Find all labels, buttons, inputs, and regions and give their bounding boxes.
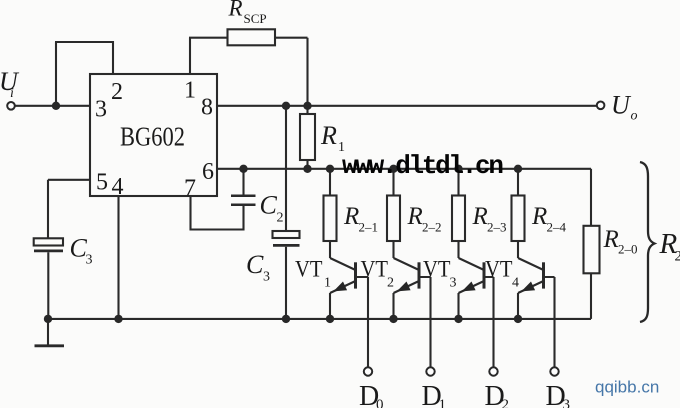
junction input node: [52, 102, 60, 110]
junction R2-4 top: [514, 165, 522, 173]
capacitor C3 left bottom plate: [34, 249, 63, 252]
transistor VT3 base wire to D2: [484, 277, 494, 367]
wire pin1 to RSCP: [189, 38, 228, 74]
wire ground rail: [48, 318, 591, 320]
IC U1 BG602 body: [90, 74, 217, 196]
junction R1 top: [303, 102, 311, 110]
svg-text:3: 3: [86, 253, 93, 268]
svg-text:2: 2: [277, 211, 284, 226]
svg-text:VT: VT: [361, 257, 389, 282]
svg-text:qqibb.cn: qqibb.cn: [595, 378, 659, 397]
wire pin2: [112, 41, 114, 74]
resistor R1 body: [300, 114, 315, 160]
capacitor C3 mid bottom plate: [273, 244, 300, 247]
transistor VT1 emitter arrow: [333, 282, 347, 292]
svg-text:5: 5: [96, 170, 108, 196]
svg-text:VT: VT: [485, 257, 513, 282]
svg-text:1: 1: [324, 276, 331, 291]
capacitor C3 mid bottom lead: [285, 247, 287, 319]
transistor VT1 base wire to D0: [356, 277, 369, 367]
terminal D2: [489, 367, 497, 375]
brace R2 group: [640, 162, 655, 322]
terminal Ui: [7, 102, 15, 110]
resistor R2-2 leads: [392, 169, 394, 258]
junction node 286 top: [282, 102, 290, 110]
svg-text:3: 3: [95, 97, 107, 123]
junction rail VT2: [389, 315, 397, 323]
svg-text:2: 2: [111, 79, 123, 105]
transistor VT4 emitter: [518, 281, 544, 319]
wire pin5 to C3 left: [48, 180, 90, 239]
svg-text:2: 2: [675, 249, 680, 265]
svg-text:R: R: [343, 203, 359, 230]
capacitor C3 mid top plate box: [273, 231, 300, 238]
svg-text:2: 2: [387, 276, 394, 291]
wire Ui to pin3: [15, 105, 90, 107]
svg-text:1: 1: [439, 397, 447, 408]
transistor VT3 emitter arrow: [462, 282, 476, 292]
junction rail VT4: [514, 315, 522, 323]
svg-text:2–2: 2–2: [422, 220, 442, 235]
transistor VT2 base wire to D1: [419, 277, 431, 367]
svg-text:1: 1: [184, 78, 196, 104]
wire pin6 bus: [217, 168, 591, 170]
transistor VT4 collector: [518, 258, 544, 270]
svg-text:8: 8: [201, 95, 213, 121]
svg-text:2–1: 2–1: [359, 220, 379, 235]
svg-text:BG602: BG602: [120, 122, 185, 152]
svg-text:i: i: [10, 86, 14, 101]
capacitor C3 left top plate box: [34, 238, 63, 245]
svg-text:VT: VT: [295, 257, 323, 282]
junction rail pin4: [114, 315, 122, 323]
terminal D0: [364, 367, 372, 375]
terminal Uo: [597, 102, 605, 110]
svg-text:2–0: 2–0: [618, 242, 638, 257]
resistor R2-4 body: [512, 196, 525, 242]
svg-text:4: 4: [112, 174, 124, 200]
terminal D1: [426, 367, 434, 375]
junction R2-1 top: [326, 165, 334, 173]
capacitor C2 plates: [231, 196, 256, 205]
svg-text:R: R: [320, 121, 337, 150]
resistor R2-2 body: [387, 196, 400, 242]
junction rail VT3: [454, 315, 462, 323]
resistor R2-3 leads: [457, 169, 459, 258]
junction R1 bottom: [303, 165, 311, 173]
resistor R2-1 body: [324, 196, 337, 242]
svg-text:o: o: [631, 109, 638, 124]
transistor VT1 collector: [330, 258, 356, 270]
resistor R2-0 leads: [590, 273, 592, 319]
transistor VT4 emitter arrow: [521, 282, 535, 292]
transistor VT1 base bar: [354, 262, 357, 288]
svg-text:R: R: [531, 203, 547, 230]
transistor VT3 collector: [459, 258, 485, 270]
junction C2 top: [239, 165, 247, 173]
svg-text:2: 2: [502, 397, 510, 408]
junction R2-3 top: [454, 165, 462, 173]
transistor VT3 base bar: [483, 262, 486, 288]
junction rail VT1: [326, 315, 334, 323]
svg-text:7: 7: [184, 176, 196, 202]
resistor R2-3 body: [452, 196, 465, 242]
svg-text:2–3: 2–3: [487, 220, 507, 235]
svg-text:2–4: 2–4: [547, 220, 567, 235]
svg-text:4: 4: [512, 276, 519, 291]
svg-text:3: 3: [450, 276, 457, 291]
ground: [47, 319, 49, 346]
wire top loop horizontal: [55, 41, 113, 43]
transistor VT2 collector: [394, 258, 420, 270]
svg-text:C: C: [260, 191, 278, 220]
svg-text:SCP: SCP: [244, 11, 267, 26]
wire junction to top loop: [55, 42, 57, 106]
svg-text:3: 3: [263, 270, 270, 285]
svg-text:C: C: [246, 250, 264, 279]
junction rail ground: [44, 315, 52, 323]
svg-text:6: 6: [202, 159, 214, 185]
svg-text:U: U: [611, 91, 632, 120]
transistor VT4 base bar: [542, 262, 545, 288]
wire pin4 down to rail: [117, 196, 119, 319]
svg-text:VT: VT: [423, 257, 451, 282]
svg-text:3: 3: [563, 397, 571, 408]
svg-text:www.dltdl.cn: www.dltdl.cn: [342, 151, 503, 181]
junction rail C3: [282, 315, 290, 323]
resistor R2-4 leads: [517, 169, 519, 258]
wire pin6 bus corner down to R2-0: [590, 169, 592, 226]
transistor VT2 emitter arrow: [397, 282, 411, 292]
resistor R2-0 body: [584, 226, 600, 273]
wire node 286 down to C3: [285, 106, 287, 231]
resistor R2-1 leads: [329, 169, 331, 258]
svg-text:0: 0: [376, 397, 384, 408]
wire pin8 to Uo: [217, 105, 597, 107]
transistor VT1 emitter: [330, 281, 356, 319]
resistor R1 leads: [306, 106, 308, 169]
transistor VT3 emitter: [459, 281, 485, 319]
wire RSCP to pin8 node: [275, 38, 308, 106]
transistor VT4 base wire to D3: [544, 277, 555, 367]
capacitor C2 bottom lead to pin7: [191, 196, 244, 230]
capacitor C2 top lead: [242, 169, 244, 195]
svg-text:R: R: [472, 203, 488, 230]
svg-text:R: R: [228, 0, 243, 21]
junction R2-2 top: [389, 165, 397, 173]
terminal D3: [550, 367, 558, 375]
capacitor C3 left bottom lead: [47, 252, 49, 319]
svg-text:R: R: [407, 203, 423, 230]
svg-text:R: R: [603, 226, 619, 253]
transistor VT2 emitter: [394, 281, 420, 319]
transistor VT2 base bar: [418, 262, 421, 288]
resistor RSCP body: [228, 29, 276, 45]
